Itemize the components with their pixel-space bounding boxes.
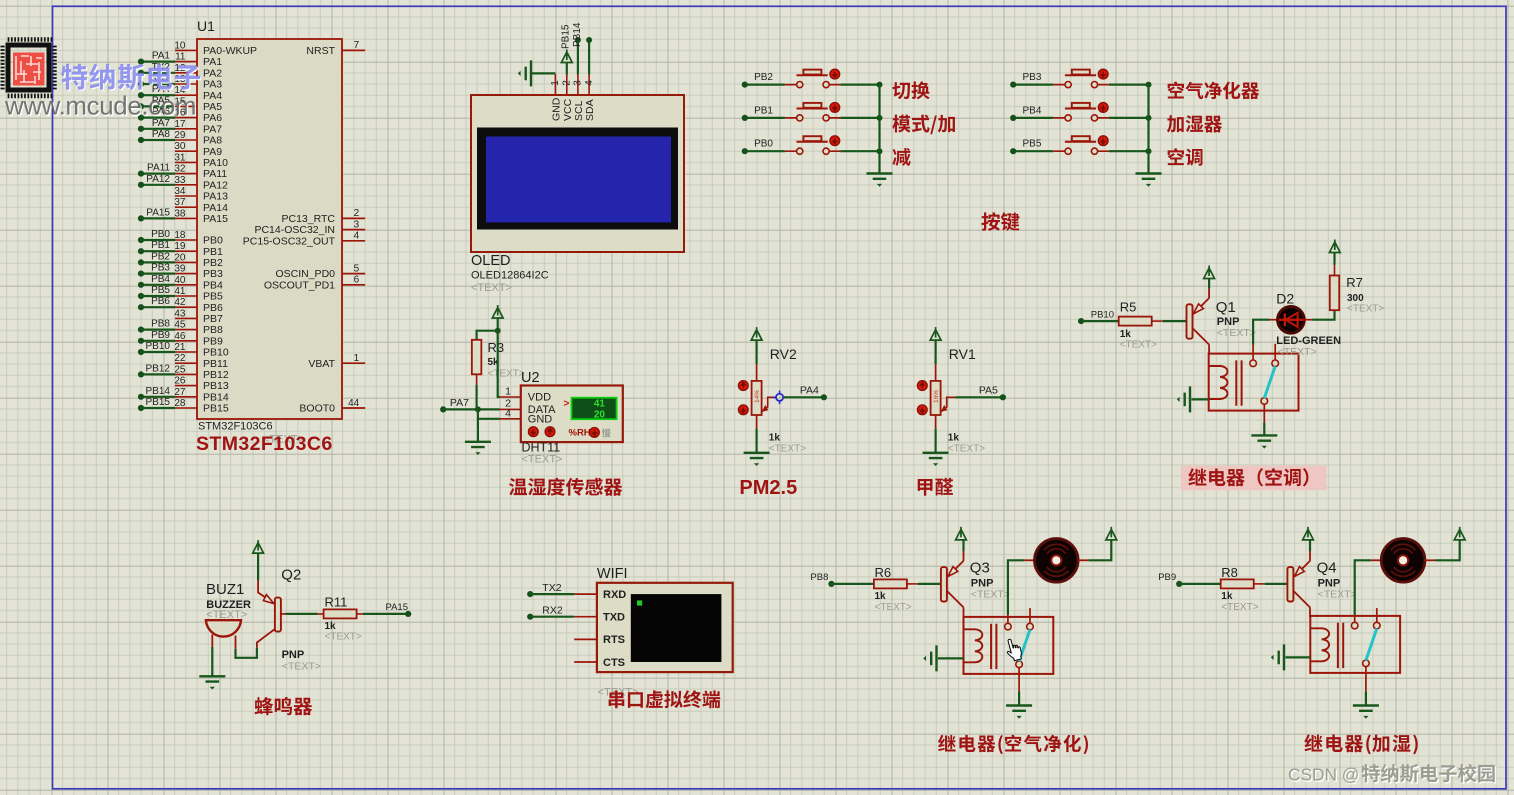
svg-text:CTS: CTS (603, 657, 625, 669)
mouse hand cursor (1004, 637, 1023, 662)
svg-text:PB4: PB4 (203, 279, 223, 291)
svg-text:26: 26 (174, 376, 186, 387)
pin PA6 (pin 16) (174, 108, 222, 125)
svg-text:20: 20 (174, 252, 186, 263)
label 空调 (1168, 148, 1203, 166)
svg-text:R8: R8 (1221, 565, 1238, 580)
svg-text:%RH: %RH (569, 428, 591, 439)
pin PB8 (pin 45) (174, 320, 223, 337)
resistor R8 1k (1221, 565, 1265, 613)
svg-text:PC15-OSC32_OUT: PC15-OSC32_OUT (243, 235, 336, 247)
push button PB5 (1010, 136, 1151, 154)
svg-text:43: 43 (174, 308, 186, 319)
OLED pins 1-4 GND VCC SCL SDA (550, 74, 596, 121)
terminal PB10 (1078, 310, 1114, 325)
svg-text:300: 300 (1347, 293, 1364, 304)
label 切换 (892, 81, 929, 99)
svg-text:PA8: PA8 (152, 129, 171, 140)
pin PA4 (pin 14) (174, 85, 222, 102)
svg-text:DHT11: DHT11 (522, 441, 561, 455)
svg-text:45: 45 (174, 320, 186, 331)
wire net PA12 (138, 174, 175, 188)
watermark text 特纳斯电子 (62, 65, 201, 92)
svg-text:PA1: PA1 (152, 51, 171, 62)
pin PC13_RTC (pin 2) (282, 208, 366, 225)
svg-text:27: 27 (174, 387, 186, 398)
svg-text:1: 1 (550, 80, 561, 86)
ground (relay coil) (923, 645, 963, 671)
pin PB7 (pin 43) (174, 308, 223, 325)
svg-text:PB3: PB3 (1022, 72, 1041, 83)
svg-text:GND: GND (528, 413, 553, 425)
svg-text:25: 25 (174, 364, 186, 375)
svg-text:PB14: PB14 (146, 386, 171, 397)
wire net PB3 (138, 263, 175, 277)
svg-text:PNP: PNP (1318, 577, 1341, 589)
wire net PB15 (138, 397, 175, 411)
svg-text:PB9: PB9 (1158, 572, 1176, 583)
svg-text:4: 4 (584, 80, 595, 86)
transistor Q4 PNP (1287, 551, 1310, 617)
pin PB5 (pin 41) (174, 286, 223, 303)
svg-text:1k: 1k (1120, 329, 1132, 340)
wire Q3 collector to relay (963, 616, 965, 618)
svg-text:PB2: PB2 (754, 72, 773, 83)
wire VDD net (498, 331, 521, 397)
power (RV2) (751, 327, 762, 364)
svg-text:30: 30 (174, 141, 186, 152)
svg-text:<TEXT>: <TEXT> (1217, 327, 1256, 339)
wire PA7 to DATA (443, 406, 521, 412)
svg-text:STM32F103C6: STM32F103C6 (198, 421, 273, 433)
relay switch blade (cyan) (1366, 629, 1377, 661)
wire net TX2 (138, 62, 175, 76)
svg-text:Q1: Q1 (1216, 299, 1236, 316)
svg-text:40: 40 (174, 275, 186, 286)
svg-text:NRST: NRST (306, 45, 335, 57)
motor (1035, 539, 1079, 583)
svg-text:PA5: PA5 (979, 385, 998, 397)
pin PB14 (pin 27) (174, 387, 228, 404)
svg-text:PB9: PB9 (151, 330, 170, 341)
ground (relay contact) (1251, 423, 1277, 449)
svg-text:PA6: PA6 (203, 112, 222, 124)
svg-text:42: 42 (174, 297, 186, 308)
wire relay contact to motor (1008, 560, 1024, 614)
svg-text:WIFI: WIFI (597, 566, 628, 582)
svg-text:4: 4 (505, 408, 511, 420)
wire net PA15 (138, 207, 175, 221)
svg-text:41: 41 (594, 399, 606, 410)
power VCC (OLED pin2) (561, 50, 572, 75)
pin PA2 (pin 12) (174, 63, 222, 80)
svg-text:PA12: PA12 (203, 179, 228, 191)
wire R11 to PA15 (363, 602, 411, 617)
wire R8 to Q4 base (1265, 583, 1288, 585)
svg-text:1: 1 (354, 353, 360, 364)
svg-text:PB8: PB8 (203, 324, 223, 336)
svg-text:PB0: PB0 (203, 235, 223, 247)
relay contacts (1351, 608, 1380, 691)
label 空气净化器 (1168, 82, 1260, 100)
svg-text:33: 33 (174, 175, 186, 186)
pin RTS (574, 634, 625, 646)
ground (relay contact) (1006, 691, 1032, 718)
svg-text:RV2: RV2 (770, 346, 797, 362)
svg-text:VDD: VDD (528, 392, 551, 404)
relay contacts (1005, 608, 1034, 691)
label Q2 (281, 567, 321, 673)
pin OSCOUT_PD1 (pin 6) (264, 275, 365, 292)
wire net PB6 (138, 296, 175, 310)
pin PB10 (pin 21) (174, 342, 228, 359)
label 1k (948, 433, 985, 455)
svg-text:PB12: PB12 (203, 369, 229, 381)
label OLED (471, 253, 549, 294)
svg-text:11: 11 (175, 52, 186, 63)
ground (buttons) (867, 174, 893, 179)
wire relay contact to motor (1355, 560, 1371, 614)
svg-text:R6: R6 (875, 565, 892, 580)
svg-text:1k: 1k (1221, 591, 1233, 602)
OLED display module (471, 95, 684, 252)
svg-text:28: 28 (174, 398, 186, 409)
pin PA3 (pin 13) (174, 74, 222, 91)
svg-text:PA7: PA7 (203, 123, 222, 135)
wire net PB15 (SCL) (561, 24, 581, 74)
terminal PB9 (1158, 572, 1182, 587)
wire button bus (878, 85, 880, 174)
label DHT11 (522, 441, 563, 466)
svg-text:PB6: PB6 (203, 302, 223, 314)
pin PA7 (pin 17) (174, 119, 222, 136)
svg-text:1: 1 (505, 385, 511, 397)
svg-text:RV1: RV1 (949, 346, 976, 362)
ground (relay contact) (1353, 691, 1379, 718)
pin PB0 (pin 18) (174, 230, 223, 247)
pin PA12 (pin 33) (174, 175, 228, 192)
label Q1 (1216, 299, 1256, 339)
wire R5 to Q1 base (1163, 320, 1187, 322)
svg-text:Q4: Q4 (1317, 560, 1337, 577)
transistor Q3 PNP (941, 551, 964, 617)
wire motor to power (1424, 559, 1435, 561)
push button PB3 (1010, 69, 1151, 88)
pin TXD (574, 612, 625, 624)
svg-text:PB2: PB2 (203, 257, 223, 269)
ground (DHT11) (465, 442, 491, 447)
svg-text:OLED12864I2C: OLED12864I2C (471, 270, 549, 282)
label 加湿器 (1167, 115, 1222, 132)
svg-text:PA11: PA11 (203, 168, 227, 180)
svg-text:38: 38 (174, 208, 186, 219)
wire relay to D2 (1253, 320, 1277, 345)
svg-text:PA7: PA7 (450, 397, 469, 409)
svg-text:31: 31 (174, 152, 186, 163)
wire net PA1 (138, 51, 175, 65)
wire D2 to R7 (1304, 310, 1334, 320)
terminal PB8 (810, 572, 834, 587)
svg-text:<TEXT>: <TEXT> (948, 444, 985, 455)
svg-text:PB14: PB14 (203, 391, 229, 403)
MCU U1 STM32F103C6 (197, 18, 342, 419)
power (Q4 emitter) (1303, 527, 1314, 552)
wire net PB8 (138, 319, 175, 333)
LED D2 LED-GREEN (1276, 291, 1341, 359)
wire net PB14 (SDA) (572, 22, 592, 74)
svg-text:Q2: Q2 (281, 567, 301, 584)
pin PA14 (pin 37) (174, 197, 228, 214)
pin NRST (pin 7) (306, 40, 365, 57)
svg-text:7: 7 (354, 40, 360, 51)
svg-text:<TEXT>: <TEXT> (875, 602, 912, 613)
svg-text:BUZ1: BUZ1 (206, 581, 244, 598)
svg-text:RTS: RTS (603, 634, 625, 646)
push button PB2 (742, 69, 883, 88)
wire Q1 collector to relay (1208, 353, 1210, 356)
wire R3 to PA7 node (476, 385, 478, 410)
ground (buttons) (1136, 174, 1162, 179)
svg-text:CSDN @: CSDN @ (1288, 765, 1359, 785)
svg-text:22: 22 (174, 353, 186, 364)
wire PB9 to R8 (1179, 583, 1221, 585)
svg-text:39: 39 (174, 264, 186, 275)
svg-text:PB0: PB0 (151, 229, 170, 240)
svg-text:18: 18 (174, 230, 186, 241)
WIFI virtual terminal (597, 566, 733, 672)
svg-text:PNP: PNP (1217, 316, 1240, 328)
svg-text:46: 46 (174, 331, 186, 342)
watermark text www.mcude.com (4, 93, 197, 122)
svg-text:PA15: PA15 (385, 602, 408, 613)
relay switch blade (cyan) (1264, 366, 1275, 398)
svg-text:SDA: SDA (584, 99, 596, 121)
wire net PB12 (138, 363, 175, 377)
svg-text:16%: 16% (933, 390, 940, 403)
svg-text:PC14-OSC32_IN: PC14-OSC32_IN (254, 224, 335, 236)
svg-text:PB14: PB14 (572, 22, 583, 47)
svg-text:6: 6 (354, 275, 360, 286)
svg-text:44: 44 (348, 398, 360, 409)
motor (1381, 539, 1425, 583)
svg-text:OSCIN_PD0: OSCIN_PD0 (275, 268, 335, 280)
wire button bus (1147, 85, 1149, 174)
svg-text:<TEXT>: <TEXT> (971, 589, 1010, 601)
svg-text:34: 34 (174, 186, 186, 197)
wire net PA6 (138, 107, 175, 121)
svg-text:10: 10 (174, 40, 186, 51)
wire to PA4 (783, 385, 827, 401)
svg-text:www.mcude.com: www.mcude.com (4, 93, 196, 121)
svg-text:PB5: PB5 (1022, 139, 1041, 150)
svg-text:PB8: PB8 (151, 319, 170, 330)
svg-text:29: 29 (174, 130, 186, 141)
svg-text:PA12: PA12 (146, 174, 170, 185)
svg-text:37: 37 (174, 197, 186, 208)
watermark logo (chip with seal) (1, 37, 57, 98)
svg-text:PB15: PB15 (146, 397, 171, 408)
pin PA15 (pin 38) (174, 208, 228, 225)
label 继电器(空气净化) (938, 735, 1088, 755)
svg-text:<TEXT>: <TEXT> (1120, 340, 1157, 351)
label 减 (892, 148, 910, 166)
svg-text:1k: 1k (875, 591, 887, 602)
svg-text:5: 5 (354, 263, 360, 274)
pin PB12 (pin 25) (174, 364, 228, 381)
svg-text:R11: R11 (325, 595, 348, 610)
pin PA5 (pin 15) (174, 96, 222, 113)
svg-text:PB7: PB7 (203, 313, 223, 325)
svg-text:PA2: PA2 (203, 67, 222, 79)
svg-text:<TEXT>: <TEXT> (522, 454, 563, 466)
svg-text:STM32F103C6: STM32F103C6 (196, 433, 333, 455)
relay switch blade (cyan) (1019, 630, 1030, 662)
buzzer BUZ1 (206, 581, 251, 649)
svg-text:U1: U1 (197, 18, 215, 34)
svg-text:19: 19 (174, 241, 186, 252)
ground (relay coil) (1177, 386, 1209, 412)
svg-text:PB1: PB1 (203, 246, 223, 258)
wire net PB2 (138, 251, 175, 265)
wire to PA5 (955, 385, 1006, 401)
svg-text:PB8: PB8 (810, 572, 828, 583)
pin PB11 (pin 22) (174, 353, 228, 370)
svg-text:PB3: PB3 (151, 263, 170, 274)
svg-text:1k: 1k (769, 433, 781, 444)
svg-text:R5: R5 (1120, 300, 1137, 315)
svg-text:PB15: PB15 (561, 24, 572, 49)
svg-text:RXD: RXD (603, 589, 626, 601)
svg-text:32: 32 (174, 164, 186, 175)
label 温湿度传感器 (509, 478, 622, 496)
pin CTS (574, 657, 625, 669)
potentiometer RV1 1k (917, 346, 976, 429)
resistor R11 1k (318, 595, 363, 643)
node R3/VDD junction (495, 328, 501, 334)
svg-text:PA8: PA8 (203, 135, 222, 147)
svg-text:>: > (564, 399, 570, 410)
svg-text:OLED: OLED (471, 253, 511, 269)
svg-text:PA1: PA1 (203, 56, 222, 68)
svg-text:PB0: PB0 (754, 139, 773, 150)
svg-text:PB10: PB10 (203, 347, 229, 359)
resistor R5 1k (1119, 300, 1163, 351)
wire junction to R3 (477, 331, 498, 340)
pin PA8 (pin 29) (174, 130, 222, 147)
svg-text:PA5: PA5 (203, 101, 222, 113)
svg-text:<TEXT>: <TEXT> (1221, 602, 1258, 613)
svg-text:PM2.5: PM2.5 (739, 477, 797, 499)
wire PB8 to R6 (831, 583, 874, 585)
svg-text:BOOT0: BOOT0 (299, 403, 335, 415)
svg-text:RX2: RX2 (542, 605, 563, 617)
label U1 value STM32F103C6 (196, 421, 333, 456)
terminal TX2 (527, 582, 574, 597)
svg-text:PA15: PA15 (203, 213, 228, 225)
power (R7) (1329, 240, 1340, 265)
wire net RX2 (138, 73, 175, 87)
wire net PB4 (138, 274, 175, 288)
DHT11 U2 (505, 370, 623, 442)
label 按键 (981, 212, 1019, 231)
svg-text:<TEXT>: <TEXT> (206, 609, 247, 621)
svg-text:PA9: PA9 (203, 146, 222, 158)
svg-text:<TEXT>: <TEXT> (488, 368, 525, 379)
svg-text:<TEXT>: <TEXT> (325, 632, 362, 643)
label Q4 (1317, 560, 1357, 601)
svg-text:PB15: PB15 (203, 403, 229, 415)
transistor Q2 PNP (mirrored) (257, 580, 281, 647)
svg-text:2: 2 (354, 208, 360, 219)
label 甲醛 (918, 478, 954, 496)
svg-text:2: 2 (562, 80, 573, 86)
svg-text:3: 3 (573, 80, 584, 86)
svg-text:Q3: Q3 (970, 560, 990, 577)
ground (OLED pin1) (518, 60, 556, 86)
pin PC14-OSC32_IN (pin 3) (254, 219, 365, 236)
svg-text:1k: 1k (325, 621, 337, 632)
wire net PB10 (138, 341, 175, 355)
svg-text:PB13: PB13 (203, 380, 229, 392)
pin PB15 (pin 28) (174, 398, 228, 415)
label 蜂鸣器 (255, 697, 313, 715)
potentiometer RV2 1k (738, 346, 797, 429)
label Q3 (970, 560, 1010, 601)
wire net PA11 (138, 163, 175, 177)
svg-text:14%: 14% (754, 390, 761, 403)
terminal PA7 (440, 397, 469, 413)
pin PA9 (pin 30) (174, 141, 222, 158)
svg-text:PB1: PB1 (754, 105, 773, 116)
wire PB10 to R5 (1081, 320, 1119, 322)
svg-text:PA3: PA3 (203, 79, 222, 91)
svg-text:PB1: PB1 (151, 240, 170, 251)
wire net PA4 (138, 84, 175, 98)
svg-text:<TEXT>: <TEXT> (1278, 346, 1317, 358)
ground (RV2) (744, 429, 770, 466)
wire net PB1 (138, 240, 175, 254)
pin OSCIN_PD0 (pin 5) (275, 263, 365, 280)
pin BOOT0 (pin 44) (299, 398, 365, 415)
svg-text:PA4: PA4 (203, 90, 222, 102)
svg-text:<TEXT>: <TEXT> (1318, 589, 1357, 601)
svg-text:R7: R7 (1346, 275, 1363, 290)
wire buzzer to Q2 collector (236, 648, 257, 658)
svg-text:U2: U2 (521, 370, 540, 386)
resistor R6 1k (874, 565, 918, 613)
svg-text:41: 41 (174, 286, 186, 297)
svg-text:D2: D2 (1276, 291, 1294, 307)
svg-text:<TEXT>: <TEXT> (769, 444, 806, 455)
ground (relay coil) (1271, 644, 1311, 670)
svg-text:PA15: PA15 (146, 207, 170, 218)
svg-text:TX2: TX2 (542, 582, 561, 594)
svg-text:TXD: TXD (603, 612, 625, 624)
svg-text:PB5: PB5 (151, 285, 170, 296)
svg-text:1k: 1k (948, 433, 960, 444)
power (R3 top) (492, 305, 503, 331)
wire R6 to Q3 base (918, 583, 941, 585)
svg-text:PB4: PB4 (151, 274, 170, 285)
svg-text:PA4: PA4 (800, 385, 819, 397)
svg-text:PB4: PB4 (1022, 105, 1041, 116)
svg-text:GND: GND (550, 97, 562, 121)
pin PA0 (pin 10) (174, 40, 257, 57)
svg-text:VBAT: VBAT (308, 358, 335, 370)
terminal RX2 (527, 605, 574, 620)
svg-text:<TEXT>: <TEXT> (282, 661, 321, 673)
transistor Q1 PNP (1187, 289, 1210, 355)
